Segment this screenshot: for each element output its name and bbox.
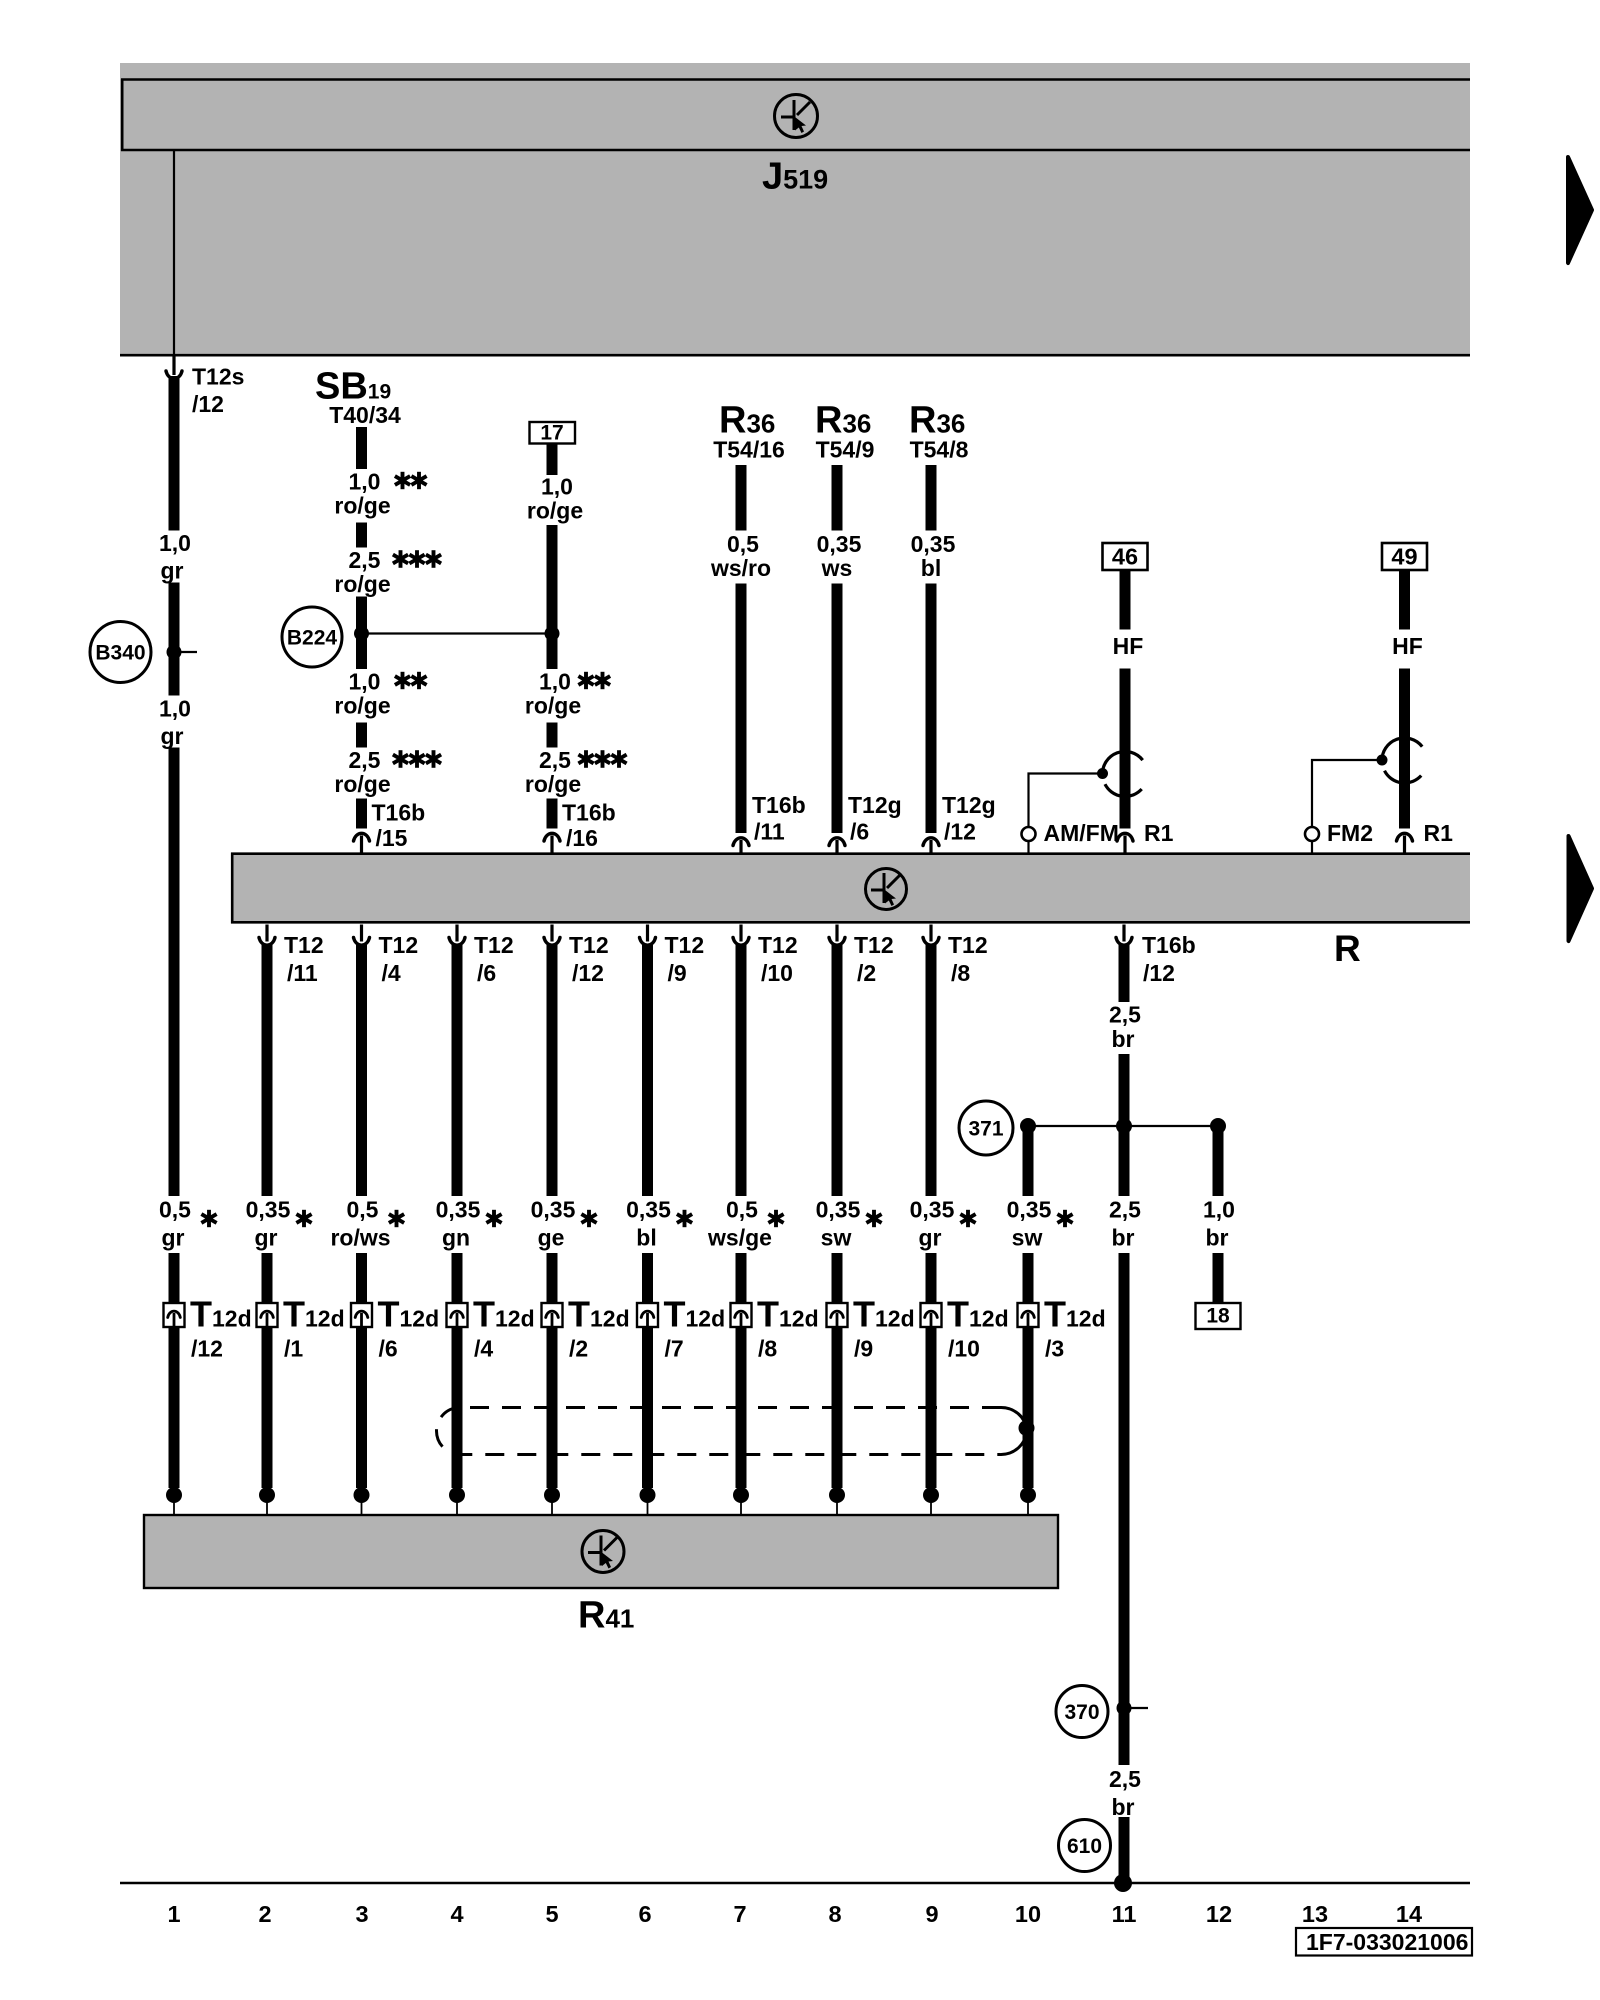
svg-text:ro/ge: ro/ge (334, 571, 390, 597)
svg-text:/12: /12 (191, 1336, 223, 1362)
tap B340 (90, 622, 197, 683)
current-flow direction icon in R41 (582, 1531, 624, 1573)
ground connection 370 (1056, 1686, 1148, 1738)
svg-text:5: 5 (545, 1901, 558, 1927)
connection R36 T54/8 (909, 400, 969, 463)
svg-text:/8: /8 (758, 1336, 777, 1362)
svg-text:T12d: T12d (568, 1294, 630, 1335)
svg-text:gr: gr (161, 723, 184, 749)
svg-text:/9: /9 (854, 1336, 873, 1362)
label 0,5 ws/ge * (707, 1197, 784, 1251)
svg-text:/10: /10 (948, 1336, 980, 1362)
svg-text:/10: /10 (761, 960, 793, 986)
label T12d/7 (664, 1294, 726, 1362)
svg-text:bl: bl (636, 1225, 656, 1251)
svg-text:/12: /12 (1143, 960, 1175, 986)
ground connection 610 (1059, 1820, 1111, 1872)
svg-text:T16b: T16b (372, 800, 426, 826)
wire HF from 46 (1120, 570, 1131, 829)
screen drain wire to FM2 (1305, 760, 1382, 853)
J519 inner connector rail (121, 79, 1470, 152)
wire track 0,35 gn (452, 944, 463, 1488)
wire track10 0,35 sw (1023, 1126, 1034, 1488)
label 0,35 sw * (816, 1197, 882, 1251)
label 0,5 ro/ws * (330, 1197, 404, 1251)
shielded coax screen symbol (1377, 738, 1423, 783)
wire track 0,35 sw (832, 944, 843, 1488)
connector T12/10 out of R (731, 925, 797, 987)
svg-text:ws/ro: ws/ro (710, 555, 771, 581)
wire track 0,35 gr (926, 944, 937, 1488)
svg-text:1,0: 1,0 (541, 474, 573, 500)
ground rail line (120, 1882, 1470, 1885)
wire from fuse 17 (547, 444, 558, 829)
label 1,0 ro/ge ** (below splice, left) (334, 669, 426, 719)
svg-text:ro/ws: ro/ws (330, 1225, 390, 1251)
label 0,35 bl (911, 531, 956, 581)
label 2,5 br (upper) (1109, 1002, 1141, 1053)
svg-text:2,5: 2,5 (1109, 1766, 1141, 1792)
svg-text:/1: /1 (284, 1336, 303, 1362)
svg-text:ro/ge: ro/ge (525, 771, 581, 797)
svg-text:0,35: 0,35 (911, 531, 956, 557)
label 1,0 gr (upper) (159, 530, 191, 584)
svg-text:ro/ge: ro/ge (334, 771, 390, 797)
connector T12d/12 (164, 1303, 185, 1330)
svg-text:2,5: 2,5 (1109, 1197, 1141, 1223)
svg-text:T12: T12 (284, 932, 324, 958)
svg-text:/12: /12 (572, 960, 604, 986)
label 1,0 ro/ge (fuse17) (527, 474, 583, 524)
svg-text:T12d: T12d (378, 1294, 440, 1335)
label 2,5 ro/ge *** (left) (334, 747, 441, 797)
connector R1 into R (46) (1115, 820, 1173, 854)
label 2,5 br (lower) (1109, 1766, 1141, 1820)
svg-text:0,35: 0,35 (246, 1197, 291, 1223)
svg-text:R36: R36 (909, 400, 965, 442)
junction to ground rail (1114, 1874, 1132, 1892)
label 0,35 ws (817, 531, 862, 581)
svg-text:0,5: 0,5 (347, 1197, 379, 1223)
svg-text:ro/ge: ro/ge (527, 498, 583, 524)
svg-text:1F7-033021006: 1F7-033021006 (1306, 1929, 1468, 1955)
svg-text:T54/8: T54/8 (910, 437, 969, 463)
svg-text:1: 1 (167, 1901, 180, 1927)
svg-text:T12d: T12d (190, 1294, 252, 1335)
label 1,0 ro/ge ** (below splice, right) (525, 669, 610, 719)
wire inside J519 from pin T12s/12 (173, 150, 175, 355)
wire R36 T54/9 (832, 465, 843, 833)
connector T12/4 out of R (352, 925, 418, 987)
current-flow direction icon in J519 (775, 95, 818, 138)
connector T16b/15 into R (352, 800, 425, 854)
label T12d/10 (947, 1294, 1009, 1362)
label T12d/9 (853, 1294, 915, 1362)
svg-text:10: 10 (1015, 1901, 1041, 1927)
connection R36 T54/16 (713, 400, 785, 463)
svg-text:T12: T12 (665, 932, 705, 958)
wire R36 T54/16 (736, 465, 747, 833)
svg-text:T12d: T12d (664, 1294, 726, 1335)
svg-text:/4: /4 (382, 960, 401, 986)
svg-text:br: br (1112, 1225, 1135, 1251)
svg-text:/12: /12 (192, 391, 224, 417)
connector T12d/10 (921, 1303, 942, 1330)
splice B224 (282, 607, 342, 667)
svg-text:371: 371 (968, 1118, 1003, 1141)
label 1,0 gr (lower) (159, 696, 191, 750)
svg-text:/3: /3 (1045, 1336, 1064, 1362)
svg-text:610: 610 (1067, 1835, 1102, 1858)
svg-text:8: 8 (828, 1901, 841, 1927)
svg-text:0,35: 0,35 (531, 1197, 576, 1223)
wire track 0,5 ws/ge (736, 944, 747, 1488)
svg-text:/7: /7 (665, 1336, 684, 1362)
connector T12d/7 (637, 1303, 658, 1330)
svg-text:T12d: T12d (473, 1294, 535, 1335)
svg-text:1,0: 1,0 (349, 469, 381, 495)
svg-text:FM2: FM2 (1327, 820, 1373, 846)
shielded coax screen symbol (1097, 751, 1143, 796)
connector T12/2 out of R (827, 925, 893, 987)
svg-text:0,35: 0,35 (626, 1197, 671, 1223)
label 0,35 gn * (436, 1197, 502, 1251)
svg-text:ws/ge: ws/ge (707, 1225, 772, 1251)
aerial amplifier R41 box (144, 1515, 1058, 1588)
svg-text:/6: /6 (379, 1336, 398, 1362)
junction dots into R41 (166, 1487, 1036, 1515)
terminal 18 (1196, 1303, 1241, 1329)
connector T12d/1 (257, 1303, 278, 1330)
svg-text:0,35: 0,35 (1007, 1197, 1052, 1223)
connector T12/12 out of R (542, 925, 608, 987)
svg-text:11: 11 (1112, 1901, 1137, 1927)
svg-text:0,35: 0,35 (816, 1197, 861, 1223)
svg-text:HF: HF (1113, 633, 1144, 659)
svg-text:/9: /9 (668, 960, 687, 986)
svg-text:R1: R1 (1424, 820, 1454, 846)
label T12d/12 (190, 1294, 252, 1362)
wire track 0,5 ro/ws (356, 944, 367, 1488)
connector T12d/9 (827, 1303, 848, 1330)
label 0,35 bl * (626, 1197, 692, 1251)
label 1,0 ro/ge ** (334, 469, 426, 519)
label 0,35 sw * (1007, 1197, 1073, 1251)
svg-text:ge: ge (538, 1225, 565, 1251)
junction wire SB19 to fuse17 wire (354, 626, 560, 641)
svg-text:14: 14 (1396, 1901, 1422, 1927)
svg-text:T16b: T16b (1142, 932, 1196, 958)
connector R1 into R (49) (1395, 820, 1453, 854)
connector T12g/6 into R (827, 792, 901, 854)
connector T12/8 out of R (921, 925, 987, 987)
svg-text:gn: gn (442, 1225, 470, 1251)
svg-text:0,5: 0,5 (727, 531, 759, 557)
connector T16b/11 into R (731, 792, 805, 854)
label 1,0 br (1203, 1197, 1235, 1251)
wire track 0,35 bl (642, 944, 653, 1488)
svg-text:T12: T12 (854, 932, 894, 958)
fuse SB19 label (315, 366, 401, 429)
svg-text:T12d: T12d (947, 1294, 1009, 1335)
svg-text:T16b: T16b (752, 792, 806, 818)
label 2,5 ro/ge *** (334, 547, 441, 597)
control unit J519 box (120, 63, 1470, 356)
radio R box (231, 853, 1470, 924)
svg-text:T12d: T12d (853, 1294, 915, 1335)
svg-text:T12d: T12d (1044, 1294, 1106, 1335)
svg-text:2: 2 (258, 1901, 271, 1927)
diagram id 1F7-033021006 (1296, 1928, 1472, 1956)
svg-text:ro/ge: ro/ge (334, 493, 390, 519)
svg-text:HF: HF (1392, 633, 1423, 659)
current-flow direction icon in R (866, 869, 907, 910)
svg-text:T40/34: T40/34 (329, 402, 401, 428)
wire HF from 49 (1399, 570, 1410, 829)
svg-text:/11: /11 (754, 819, 785, 845)
ground wire links at junction (1020, 1118, 1226, 1134)
connector T12d/2 (542, 1303, 563, 1330)
svg-text:9: 9 (925, 1901, 938, 1927)
svg-text:R: R (1334, 928, 1361, 969)
svg-text:13: 13 (1302, 1901, 1328, 1927)
wire track1 1,0 gr (169, 376, 180, 1488)
svg-text:2,5: 2,5 (539, 747, 571, 773)
svg-text:12: 12 (1206, 1901, 1232, 1927)
connector T12/11 out of R (257, 925, 323, 987)
svg-text:/8: /8 (951, 960, 970, 986)
svg-text:/16: /16 (566, 825, 598, 851)
label 2,5 ro/ge *** (right) (525, 747, 627, 797)
svg-text:0,5: 0,5 (726, 1197, 758, 1223)
svg-text:T12: T12 (474, 932, 514, 958)
svg-text:/2: /2 (569, 1336, 588, 1362)
label 2,5 br (middle) (1109, 1197, 1141, 1251)
screen drain wire to AM/FM (1022, 774, 1103, 854)
svg-text:0,35: 0,35 (910, 1197, 955, 1223)
connector T12/6 out of R (447, 925, 513, 987)
svg-text:18: 18 (1206, 1305, 1230, 1328)
svg-text:/4: /4 (474, 1336, 493, 1362)
wire track 0,35 gr (262, 944, 273, 1488)
svg-text:T54/16: T54/16 (713, 437, 785, 463)
connector T16b/12 out of R (1114, 925, 1195, 987)
svg-text:B340: B340 (95, 642, 145, 665)
svg-text:R1: R1 (1144, 820, 1174, 846)
label T12s/12 (192, 364, 244, 418)
svg-text:1,0: 1,0 (1203, 1197, 1235, 1223)
connector T12d/8 (731, 1303, 752, 1330)
connector T12/9 out of R (638, 925, 704, 987)
svg-text:3: 3 (355, 1901, 368, 1927)
svg-text:0,5: 0,5 (159, 1197, 191, 1223)
svg-text:0,35: 0,35 (817, 531, 862, 557)
svg-text:1,0: 1,0 (159, 530, 191, 556)
svg-text:gr: gr (162, 1225, 185, 1251)
svg-text:2,5: 2,5 (349, 547, 381, 573)
terminal 49 (1382, 543, 1427, 570)
wire 1 lower label 0,5 gr * (159, 1197, 217, 1251)
screened cable sheath (dashed) (437, 1407, 1035, 1454)
connector T12g/12 into R (921, 792, 995, 854)
svg-text:ro/ge: ro/ge (525, 693, 581, 719)
svg-text:sw: sw (821, 1225, 852, 1251)
continuation arrow (at R) (1569, 836, 1593, 941)
svg-text:/12: /12 (944, 819, 976, 845)
svg-text:R36: R36 (815, 400, 871, 442)
connector T12d/6 (351, 1303, 372, 1330)
svg-text:2,5: 2,5 (349, 747, 381, 773)
connection R36 T54/9 (815, 400, 874, 463)
svg-text:0,35: 0,35 (436, 1197, 481, 1223)
label T12d/1 (283, 1294, 345, 1362)
label T12d/3 (1044, 1294, 1106, 1362)
svg-text:T12: T12 (758, 932, 798, 958)
label 0,35 gr * (246, 1197, 312, 1251)
label 0,35 ge * (531, 1197, 597, 1251)
fuse 17 (530, 422, 576, 445)
svg-text:T12d: T12d (283, 1294, 345, 1335)
svg-text:49: 49 (1391, 544, 1417, 570)
connector T16b/16 into R (542, 800, 615, 854)
svg-text:T12: T12 (569, 932, 609, 958)
label T12d/6 (378, 1294, 440, 1362)
svg-text:R41: R41 (578, 1595, 634, 1637)
svg-text:T16b: T16b (562, 800, 616, 826)
svg-text:/15: /15 (376, 825, 408, 851)
connector T12s/12 (164, 357, 183, 379)
svg-text:br: br (1206, 1225, 1229, 1251)
svg-text:46: 46 (1112, 544, 1138, 570)
svg-text:R36: R36 (719, 400, 775, 442)
svg-text:br: br (1112, 1794, 1135, 1820)
svg-text:T12: T12 (948, 932, 988, 958)
svg-text:1,0: 1,0 (539, 669, 571, 695)
svg-text:4: 4 (450, 1901, 463, 1927)
wire track 0,35 ge (547, 944, 558, 1488)
svg-text:1,0: 1,0 (349, 669, 381, 695)
svg-text:T12g: T12g (942, 792, 996, 818)
wire track12 1,0 br (1213, 1126, 1224, 1304)
svg-text:AM/FM: AM/FM (1044, 820, 1119, 846)
svg-text:1,0: 1,0 (159, 696, 191, 722)
svg-text:T12g: T12g (848, 792, 902, 818)
connector T12d/4 (447, 1303, 468, 1330)
label T12d/2 (568, 1294, 630, 1362)
svg-text:/6: /6 (477, 960, 496, 986)
svg-text:bl: bl (921, 555, 941, 581)
label 0,35 gr * (910, 1197, 976, 1251)
wire R36 T54/8 (926, 465, 937, 833)
svg-text:/6: /6 (850, 819, 869, 845)
track numbers (167, 1901, 1422, 1927)
svg-text:T12d: T12d (757, 1294, 819, 1335)
label T12d/8 (757, 1294, 819, 1362)
svg-text:gr: gr (161, 558, 184, 584)
junction 371 (959, 1101, 1013, 1155)
wire from SB19 T40/34 (356, 427, 367, 829)
svg-text:gr: gr (919, 1225, 942, 1251)
terminal 46 (1103, 543, 1148, 570)
svg-text:/2: /2 (857, 960, 876, 986)
label T12d/4 (473, 1294, 535, 1362)
svg-text:6: 6 (638, 1901, 651, 1927)
svg-text:17: 17 (540, 422, 563, 445)
svg-text:/11: /11 (287, 960, 318, 986)
svg-text:7: 7 (733, 1901, 746, 1927)
svg-text:2,5: 2,5 (1109, 1002, 1141, 1028)
svg-text:br: br (1112, 1026, 1135, 1052)
label 0,5 ws/ro (710, 531, 771, 581)
svg-text:B224: B224 (287, 627, 338, 650)
svg-text:370: 370 (1064, 1701, 1099, 1724)
continuation arrow (top right) (1568, 157, 1592, 263)
svg-text:T12: T12 (379, 932, 419, 958)
connector T12d/3 (1018, 1303, 1039, 1330)
svg-text:sw: sw (1012, 1225, 1043, 1251)
svg-text:ro/ge: ro/ge (334, 693, 390, 719)
wire track11 2,5 br (1119, 944, 1130, 1883)
svg-text:T12s: T12s (192, 364, 244, 390)
svg-text:gr: gr (255, 1225, 278, 1251)
svg-text:ws: ws (821, 555, 853, 581)
svg-text:T54/9: T54/9 (816, 437, 875, 463)
